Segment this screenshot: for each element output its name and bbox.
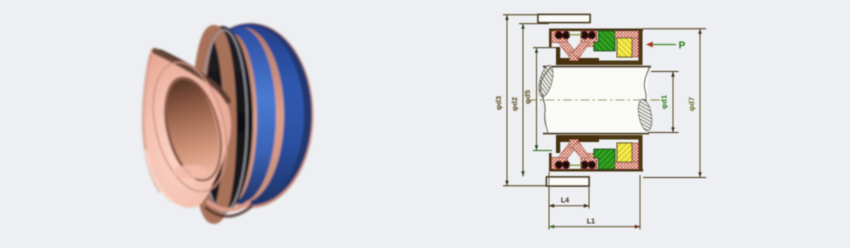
dim phi-d5 extension top	[533, 47, 556, 49]
dim phi-d7 extension top	[643, 28, 706, 30]
L1 extension right	[639, 175, 641, 230]
bore rim line	[156, 72, 231, 186]
shaft bottom edge	[543, 133, 649, 135]
dim phi-d1 arrows	[671, 72, 674, 77]
svg-text:L1: L1	[587, 218, 595, 225]
dim phi-d1 line	[672, 72, 674, 133]
shaft centerline	[528, 99, 664, 101]
dim phi-d5 arrows	[535, 48, 538, 53]
shaft body	[545, 67, 648, 133]
svg-text:L4: L4	[561, 198, 569, 205]
seat ring (green hatch)	[594, 31, 615, 51]
elastomer block right of spring	[581, 31, 597, 43]
dim phi-d2 extension top	[519, 23, 549, 25]
gland left wall	[549, 29, 552, 48]
dim phi-d1 extension bottom	[648, 132, 679, 134]
left break curve	[541, 66, 552, 134]
L4 arrows	[549, 204, 554, 208]
carrier bottom loop pink	[207, 201, 250, 210]
gray highlight arc on rubber	[201, 30, 247, 212]
elastomer step right	[585, 38, 597, 47]
P arrow line	[652, 44, 676, 46]
bellows V tip	[570, 52, 579, 61]
right break curve	[644, 66, 650, 101]
technical drawing: seal cross-section	[494, 15, 706, 230]
bellows V right arm	[572, 42, 590, 59]
face bottom-left bright rim	[146, 150, 172, 201]
drive ring (yellow hatch)	[617, 38, 632, 57]
bore bottom highlight	[172, 165, 208, 179]
packing top band (red check)	[615, 31, 639, 38]
shaft top edge	[543, 66, 651, 68]
navy outer cup	[188, 24, 312, 206]
photo: mechanical seal product	[141, 23, 313, 218]
dim phi-d3 extension top	[503, 14, 545, 16]
L4 dim line	[549, 205, 589, 207]
bottom line right	[599, 61, 643, 66]
dim phi-d2 arrows	[521, 24, 524, 29]
gland assembly top (mirrored for bottom)	[549, 29, 643, 66]
bright blue band	[204, 27, 276, 203]
dim phi-d7 arrows	[698, 29, 701, 34]
carrier ring band (pink-brown)	[198, 32, 230, 218]
bellows V left arm	[558, 42, 577, 59]
front copper seal ring	[143, 48, 231, 208]
right break hatched lobe	[636, 98, 654, 132]
dim phi-d5 extension bottom	[533, 150, 552, 152]
dim phi-d7 line	[699, 29, 701, 178]
L1 arrows	[549, 225, 554, 229]
svg-text:φd2: φd2	[510, 97, 519, 111]
gland top wall	[549, 29, 643, 32]
bore hole	[158, 74, 228, 183]
shadow band along face edge	[160, 53, 226, 99]
copper band between cup sections	[202, 28, 284, 203]
dim phi-d1 extension top	[651, 71, 679, 73]
L4 extension right	[588, 187, 590, 209]
dim phi-d2 line	[522, 24, 524, 177]
bottom cover bar	[547, 177, 590, 186]
dim phi-d3 line	[506, 15, 508, 186]
dim phi-d3 extension bottom	[503, 185, 549, 187]
carrier bottom loop dark edge	[205, 206, 252, 216]
left break hatched lobe	[536, 64, 555, 98]
L extension left	[548, 172, 550, 230]
svg-text:φd5: φd5	[523, 90, 532, 104]
svg-text:φd7: φd7	[687, 97, 696, 111]
dim phi-d3 arrows	[505, 15, 508, 20]
retainer foot vertical	[556, 47, 560, 58]
spring coil sections	[555, 32, 562, 39]
black rubber bellows	[191, 26, 253, 214]
back copper rim	[188, 23, 314, 208]
face upper-right dark edge band	[155, 51, 228, 101]
blue cup body	[192, 25, 304, 205]
P arrowhead	[646, 42, 653, 48]
copper sliver ring	[209, 34, 257, 202]
dim phi-d7 extension bottom	[643, 177, 706, 179]
gland assembly bottom (mirror)	[549, 135, 643, 172]
bore chamfer shadow	[155, 71, 227, 183]
svg-text:P: P	[679, 41, 686, 52]
elastomer block left (red check)	[552, 31, 568, 43]
gland right wall	[639, 29, 643, 65]
svg-text:φd3: φd3	[494, 96, 503, 110]
packing right column (red check)	[632, 38, 639, 57]
dim phi-d5 line	[536, 48, 538, 151]
face groove ring	[141, 55, 239, 200]
retainer foot left	[556, 58, 599, 65]
top cover bar	[538, 15, 590, 23]
spring axis line	[569, 34, 582, 36]
face left rim shading	[143, 55, 160, 192]
L1 dim line	[549, 226, 640, 228]
svg-text:φd1: φd1	[660, 95, 669, 109]
